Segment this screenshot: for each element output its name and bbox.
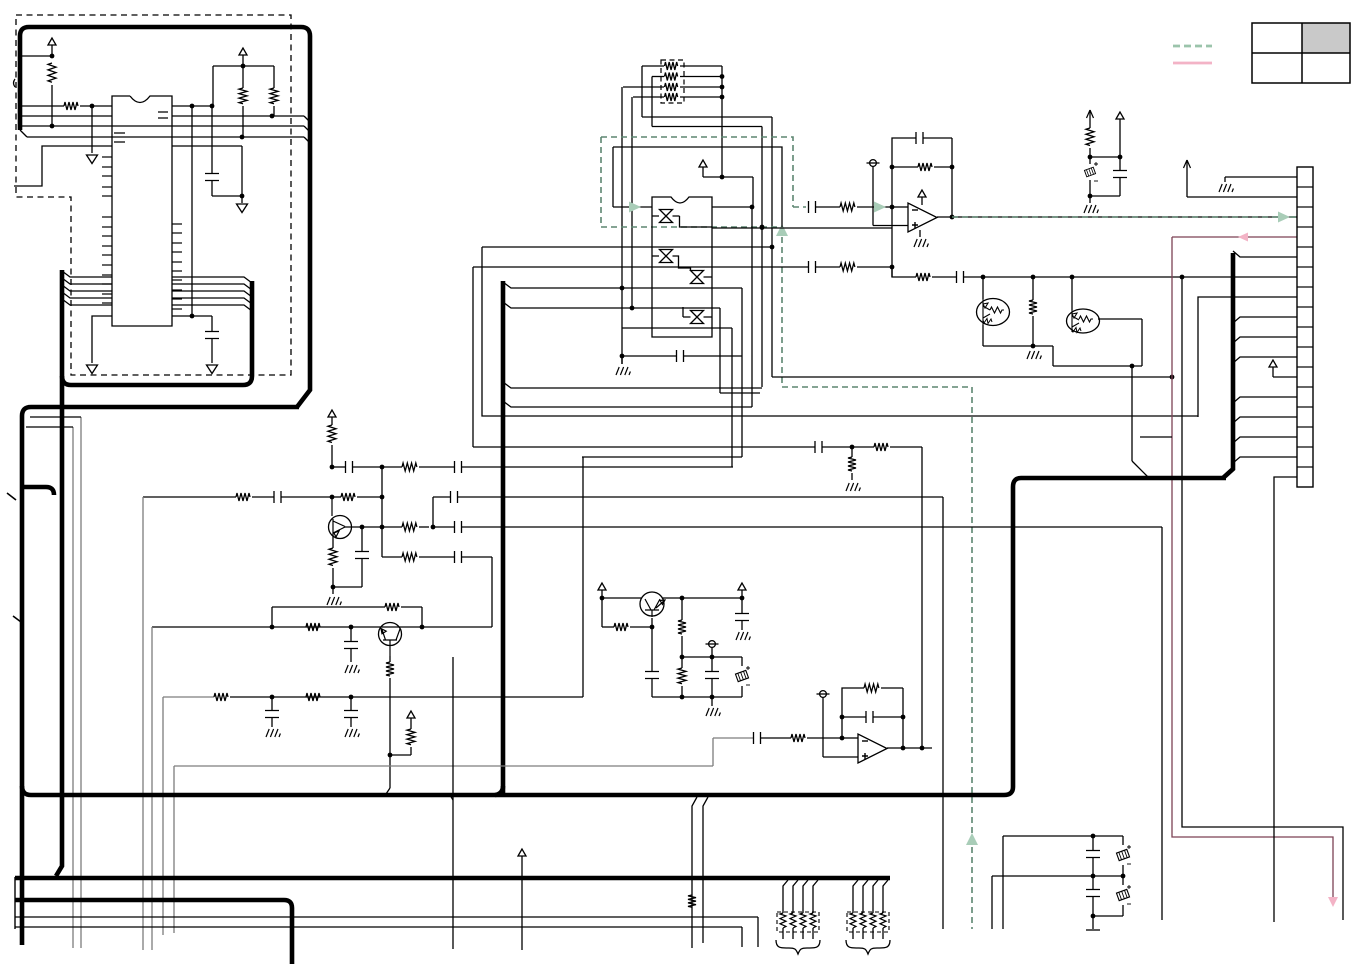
wire row y116: [20, 115, 112, 117]
zener D2: [741, 657, 743, 666]
cap C6: [1119, 157, 1121, 170]
U3 ground: [919, 230, 921, 237]
branch power resistor R15: [388, 753, 393, 758]
brace RA2: [846, 940, 890, 954]
switch IC U2 body: [652, 197, 712, 337]
ground: [1089, 196, 1091, 203]
J1 pin2 arrow: [1184, 160, 1191, 168]
transistor Q1: [329, 516, 352, 539]
U4 feedback: [842, 737, 858, 739]
nested wires y117 y126: [642, 116, 772, 118]
op-amp U3: [908, 203, 937, 232]
left verticals: [991, 876, 993, 929]
green arrow up lower: [966, 833, 978, 845]
wire row y557: [382, 556, 402, 558]
wire row y328: [622, 327, 732, 329]
J1 bottom pin wire: [1274, 477, 1297, 922]
resistor R18: [681, 657, 683, 668]
cap C15: [1092, 876, 1094, 889]
resistor R9 to ground: [1032, 277, 1034, 300]
RN1 left wires: [642, 65, 664, 67]
wire row y146 right: [172, 145, 242, 147]
U3 power arrow: [918, 190, 926, 197]
thick bus route to bottom: [22, 478, 1226, 795]
vertical x742: [741, 288, 743, 457]
wire row y447: [473, 446, 815, 448]
J1 power arrow y377: [1269, 360, 1277, 367]
wire row y497: [143, 496, 236, 498]
transistor Q2: [379, 623, 402, 646]
pink route: [1172, 237, 1333, 898]
bus fan row y288: [503, 282, 742, 288]
green dashed signal path down right: [782, 227, 972, 929]
thick bus bar right of U1: [62, 281, 252, 385]
wire row y116 right: [172, 115, 304, 117]
ground under C1: [241, 196, 243, 203]
wire row y437 stub: [1140, 436, 1172, 438]
wire row y527: [360, 525, 365, 530]
U2 switch S4: [691, 311, 704, 324]
bus A drops x692 x703 resistor R20: [692, 797, 697, 948]
bus fan left of U1: [62, 271, 112, 277]
caps to ground row697: [271, 697, 273, 710]
zener D4: [1122, 876, 1124, 885]
wire row y377: [772, 376, 1172, 378]
U1 right pins: [172, 223, 182, 225]
row 657: [682, 656, 742, 658]
bus fan right of U1: [172, 277, 252, 283]
resistor array RA2: [847, 912, 889, 932]
legend green dashed: [1173, 45, 1212, 48]
thin row y927: [15, 926, 742, 928]
cap C10: [651, 627, 653, 671]
U3 input wire green arrow: [874, 202, 886, 213]
thick bus x1233 with fans: [1223, 253, 1233, 478]
Q1 emitter resistor R13: [332, 535, 334, 548]
wire row y467: [332, 466, 345, 468]
transistor Q5: [640, 592, 664, 616]
gray verticals left: [142, 497, 144, 950]
U3 feedback resistor R7: [890, 165, 895, 170]
vertical x382: [381, 467, 383, 557]
vertical x732: [731, 328, 733, 467]
power arrow + resistor R8: [1087, 110, 1094, 118]
cap C13: [752, 737, 754, 739]
U1 left pins: [102, 156, 112, 158]
bus fan row y407: [503, 401, 752, 407]
U2 right wire y227: [712, 227, 892, 229]
wire stub left edge: [14, 79, 16, 87]
vertical x922 long: [921, 447, 923, 748]
vertical x1182 route: [1182, 277, 1343, 920]
cap C4 with ground: [620, 354, 625, 359]
cap C8: [361, 527, 363, 551]
vertical x583: [582, 457, 584, 697]
thick vertical bus x62: [56, 270, 62, 876]
bus left stub: [14, 877, 16, 929]
thin row y917: [15, 916, 758, 918]
pink wire to connector: [1172, 236, 1297, 238]
digital transistor Q3: [977, 299, 1010, 326]
J1 wire y297 long route: [1198, 297, 1297, 417]
thin rows y417 y427: [30, 416, 81, 418]
power arrow Q5: [598, 583, 606, 590]
U4 + input test point: [820, 691, 827, 698]
ground Q1: [332, 587, 334, 594]
power triangle + wire: [1116, 112, 1124, 119]
resistor R10: [874, 443, 888, 451]
resistor R5: [840, 203, 855, 211]
collector resistor R17: [681, 598, 683, 620]
U3 feedback cap C5: [892, 138, 916, 207]
legend table: [1302, 23, 1350, 53]
long vertical from pin: [191, 106, 193, 316]
ground at R2 node: [91, 106, 93, 153]
green arrow into U2: [613, 206, 652, 208]
cap C12: [711, 657, 713, 671]
green arrow up on vertical: [776, 224, 788, 236]
wire row y106 right of U1: [172, 105, 213, 107]
RN1 verticals down: [641, 66, 643, 117]
U2 switch S3: [691, 271, 704, 284]
wire row y457: [582, 456, 742, 458]
terminator: [1092, 916, 1094, 929]
bottom wire Q5: [652, 696, 742, 698]
U2 switch S1: [660, 210, 673, 223]
capacitor C1: [211, 106, 213, 173]
zener D1: [1084, 167, 1095, 177]
wire row y126: [20, 125, 304, 127]
op-amp U4: [858, 734, 887, 763]
vertical from U3 input down: [891, 207, 893, 277]
dashed box top-left: [16, 15, 291, 375]
test point Q5: [709, 641, 716, 648]
wire row y247: [482, 246, 772, 248]
wire row y137: [20, 130, 27, 137]
thick bus B y878: [15, 876, 890, 881]
connector J1: [1297, 167, 1313, 487]
cap C3 on green path: [809, 201, 816, 213]
U2 switch S2: [660, 250, 673, 263]
base resistor R16: [601, 598, 603, 627]
U3 output green dashed: [937, 216, 1297, 218]
R11 to ground: [851, 447, 853, 457]
black box around U2: [613, 147, 782, 227]
IC U1 body: [112, 96, 172, 326]
gray net y766: [174, 765, 713, 767]
wire row y607: [272, 606, 385, 608]
resistor array RA1: [777, 912, 819, 932]
thick vertical bus x503: [501, 281, 506, 795]
Q3 emitter down: [982, 325, 984, 346]
wire row y836: [1003, 835, 1123, 837]
power arrow with resistor R1: [48, 38, 56, 45]
cap C14: [1092, 836, 1094, 850]
cap C9 ground: [350, 627, 352, 641]
U4 output: [887, 747, 932, 749]
wire to row366: [1052, 346, 1054, 366]
nested rect wire A: [482, 247, 1198, 416]
wire row y106 with resistor R2: [20, 105, 64, 107]
power arrow + resistor R12: [328, 410, 336, 417]
wire row y697 gray segment: [163, 696, 214, 698]
wire row y267 long: [473, 266, 809, 268]
green dashed into J1: [1290, 216, 1297, 218]
wire row y876: [992, 875, 1123, 877]
U2 right wire y207: [712, 206, 752, 208]
thick block outline top-left: [20, 27, 310, 407]
brace RA1: [776, 940, 820, 954]
U1 internal marks: [114, 112, 168, 142]
resistor network RN1 dashed box: [661, 60, 684, 103]
vertical x943: [942, 497, 944, 929]
resistor R6: [840, 263, 855, 271]
power arrow right + cap C11: [738, 583, 746, 590]
wire row y277: [892, 267, 916, 277]
green dashed box around U2: [601, 137, 793, 207]
vertical x1162 from row527: [1161, 527, 1163, 920]
bus fan row y308: [503, 302, 720, 308]
U1 bottom ground left: [92, 316, 112, 363]
thick bus C y900 with corner: [15, 900, 292, 964]
digital transistor Q4: [1067, 309, 1100, 333]
thick border lower-left branch: [22, 407, 299, 945]
power arrow feeding switch IC: [699, 160, 707, 167]
wire row y697: [272, 696, 583, 698]
zener D3: [1122, 836, 1124, 845]
vertical x720: [719, 308, 721, 393]
RN1 right wires to bus: [680, 65, 722, 67]
legend pink line: [1173, 62, 1212, 65]
RN1 resistors: [665, 62, 678, 70]
ground: [711, 697, 713, 706]
power arrow and resistors R3 R4: [239, 48, 247, 55]
bus fan row y388: [503, 382, 762, 388]
Q2 resistor R14: [389, 656, 391, 662]
vertical x453: [452, 657, 454, 800]
cap C7 L-link: [433, 496, 450, 498]
U3 test point: [870, 160, 877, 167]
nested rect wire B: [472, 267, 474, 447]
U1 bottom wire and cap C2: [172, 315, 212, 317]
resistor R19: [791, 734, 805, 742]
bus A drop x453 power arrow x522: [518, 849, 526, 856]
wire row y146 left with L-bend: [14, 146, 112, 186]
wire row y627: [152, 626, 492, 628]
J1 pin1 ground: [1225, 176, 1297, 178]
